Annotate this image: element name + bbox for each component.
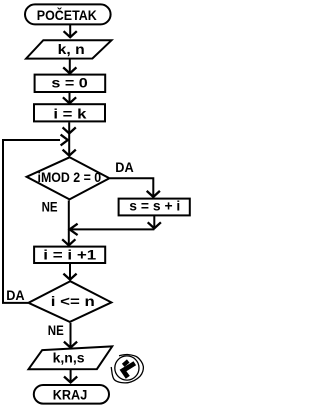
svg-text:i = i +1: i = i +1 [43, 247, 97, 262]
decision diamond iMOD2=0 [27, 157, 110, 199]
process rect i=i+1 [34, 247, 105, 263]
wire NE branch [70, 323, 72, 347]
svg-text:NE: NE [42, 199, 58, 214]
svg-text:KRAJ: KRAJ [53, 388, 88, 403]
process rect s=0 [35, 75, 106, 92]
svg-text:iMOD 2 = 0: iMOD 2 = 0 [38, 170, 102, 185]
process rect i=k [34, 104, 105, 121]
wire [69, 264, 71, 280]
svg-text:i <= n: i <= n [51, 294, 95, 309]
watermark icon small dash [122, 359, 130, 367]
svg-text:POČETAK: POČETAK [37, 8, 97, 23]
loop return wire [3, 140, 60, 303]
svg-text:k, n: k, n [58, 42, 85, 57]
svg-text:DA: DA [6, 288, 25, 303]
wire DA branch [110, 178, 153, 196]
wire [69, 93, 71, 103]
svg-text:s = s + i: s = s + i [129, 198, 180, 213]
arrowhead [63, 127, 76, 133]
wire [153, 215, 155, 228]
io parallelogram k,n,s [29, 346, 113, 369]
wire [69, 25, 71, 37]
svg-text:s = 0: s = 0 [51, 75, 87, 90]
svg-text:DA: DA [115, 160, 134, 175]
terminator POCETAK [25, 4, 111, 24]
arrowhead [64, 31, 77, 37]
arrowhead [64, 342, 77, 348]
watermark icon chevron [120, 361, 137, 379]
arrowhead [63, 67, 76, 73]
arrowhead [63, 97, 76, 103]
wire [71, 228, 154, 230]
arrowhead [62, 239, 75, 245]
arrowhead [70, 224, 78, 235]
decision diamond i<=n [28, 281, 111, 322]
watermark icon outer arc [111, 354, 143, 382]
arrowhead [64, 377, 77, 383]
wire [69, 60, 71, 74]
process rect s=s+i [119, 199, 190, 216]
svg-text:k,n,s: k,n,s [53, 351, 85, 366]
wire main [68, 200, 70, 245]
arrowhead [63, 150, 76, 156]
arrowhead [61, 135, 68, 146]
svg-text:i = k: i = k [53, 107, 87, 122]
wire [68, 122, 70, 156]
terminator KRAJ [34, 385, 109, 404]
watermark icon inner circle [115, 356, 139, 380]
arrowhead [147, 191, 160, 197]
arrowhead [63, 274, 76, 280]
io parallelogram k,n [26, 40, 111, 58]
svg-text:NE: NE [48, 323, 64, 338]
arrowhead [148, 222, 161, 228]
wire [70, 370, 72, 382]
